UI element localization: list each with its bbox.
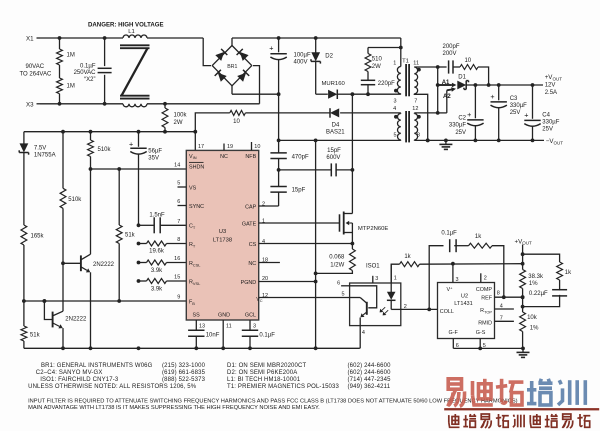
wire AC to bridge right: [253, 66, 260, 104]
svg-text:“X2”: “X2”: [84, 77, 95, 83]
svg-text:1/2W: 1/2W: [330, 262, 344, 268]
svg-text:SYNC: SYNC: [189, 204, 204, 210]
pin 13 SS number: [199, 323, 205, 329]
svg-text:1k: 1k: [404, 254, 411, 260]
capacitor 0.1uF comp: [441, 231, 468, 253]
svg-text:RT: RT: [189, 242, 196, 248]
wire X1 rail: [40, 37, 203, 39]
svg-text:T1: PREMIER MAGNETICS POL-1503: T1: PREMIER MAGNETICS POL-15033: [227, 384, 340, 390]
text BOM row 1: [41, 363, 391, 369]
capacitor C4 330uF 25V: [524, 85, 560, 140]
svg-text:10: 10: [254, 144, 260, 150]
pin 2 COMP stub: [481, 273, 487, 282]
svg-text:ISO1: ISO1: [366, 263, 380, 269]
wire PGND line: [259, 280, 318, 284]
svg-text:D2: D2: [325, 54, 333, 60]
resistor 10k 1%: [520, 312, 539, 332]
label +VOUT 12V 2.5A: [545, 74, 563, 96]
svg-text:PGND: PGND: [241, 280, 257, 286]
pin 1 ISO1 LED anode: [391, 264, 397, 292]
svg-text:0.1µF: 0.1µF: [441, 231, 457, 237]
resistor 3.9k RCSL: [137, 260, 187, 274]
svg-text:CT: CT: [189, 224, 196, 230]
svg-text:19.6k: 19.6k: [149, 249, 165, 255]
wire bridge + to DC rail: [232, 36, 401, 45]
resistor 510 2W snubber: [365, 46, 403, 72]
svg-text:0.22µF: 0.22µF: [529, 291, 548, 297]
pin 2 ISO1 cathode wire: [391, 304, 437, 311]
transformer T1 primary winding 1-3: [394, 38, 401, 94]
svg-text:(714) 447-2345: (714) 447-2345: [348, 377, 392, 383]
pin 6 ISO1 base stub: [337, 280, 377, 308]
capacitor 220pF snubber: [361, 72, 395, 95]
svg-text:BR1: BR1: [227, 64, 237, 70]
svg-text:15pF: 15pF: [292, 188, 306, 194]
text note line 1: [28, 399, 518, 405]
diode D4 BAS21: [326, 108, 345, 135]
wire bridge - output: [232, 86, 281, 96]
pin 2 CAP number: [262, 202, 265, 208]
svg-text:LT1431: LT1431: [454, 301, 473, 307]
svg-text:NFB: NFB: [245, 154, 256, 160]
svg-text:C2–C4: SANYO MV-GX: C2–C4: SANYO MV-GX: [36, 370, 103, 376]
pin 18 NC stub: [259, 258, 280, 264]
svg-text:BAS21: BAS21: [326, 130, 345, 136]
svg-text:165k: 165k: [31, 234, 45, 240]
pin 1 GATE number: [262, 219, 265, 225]
svg-text:U3: U3: [219, 229, 226, 235]
svg-text:NC: NC: [220, 154, 228, 160]
svg-text:MTP2N60E: MTP2N60E: [358, 226, 389, 232]
pin 20 PGND number: [262, 276, 268, 282]
text BOM row 2: [36, 370, 391, 376]
pin 3 GCL number: [253, 323, 256, 329]
capacitor C3 330uF 25V: [490, 85, 527, 140]
svg-text:2W: 2W: [372, 64, 381, 70]
inductor L1 common-mode choke: [120, 29, 150, 107]
label +VOUT feedback: [515, 238, 533, 245]
svg-text:FB: FB: [189, 299, 195, 305]
svg-text:0.1µF: 0.1µF: [259, 333, 275, 339]
svg-text:330µF: 330µF: [542, 120, 559, 126]
svg-text:D1: D1: [458, 75, 466, 81]
svg-text:SS: SS: [193, 313, 201, 319]
wire GATE line: [259, 222, 340, 224]
svg-text:(949) 362-4211: (949) 362-4211: [348, 384, 391, 390]
pin 14 SHDN number: [174, 162, 180, 168]
svg-text:13: 13: [199, 323, 205, 329]
svg-text:12V: 12V: [545, 83, 556, 89]
resistor 0.068 1/2W: [314, 249, 356, 275]
svg-text:2.5A: 2.5A: [545, 90, 557, 96]
svg-text:COMP: COMP: [476, 287, 493, 293]
resistor 510k left: [60, 132, 82, 264]
svg-text:+: +: [129, 139, 133, 148]
svg-text:7: 7: [500, 316, 503, 322]
wire startup rail: [24, 130, 195, 134]
wire output common rail: [414, 139, 544, 143]
svg-text:1: 1: [394, 276, 397, 282]
svg-text:8: 8: [177, 237, 180, 243]
svg-text:A2: A2: [443, 94, 451, 100]
resistor 165k: [21, 225, 45, 301]
wire CAP pin 2: [259, 205, 279, 207]
svg-text:400V: 400V: [294, 60, 308, 66]
wire X3 rail: [40, 103, 260, 105]
wire primary ground column: [315, 140, 317, 348]
svg-text:15pF: 15pF: [327, 148, 341, 154]
svg-text:1: 1: [393, 60, 396, 66]
node A pin11 junction: [436, 65, 440, 115]
resistor 10 output snubber: [460, 58, 489, 85]
transformer T1 secondary winding 12-8: [414, 113, 437, 140]
pin 3 V+ stub: [453, 264, 459, 283]
svg-text:200pF: 200pF: [442, 44, 459, 50]
svg-text:BR1: GENERAL INSTRUMENTS W06G: BR1: GENERAL INSTRUMENTS W06G: [41, 363, 153, 369]
svg-text:U2: U2: [461, 293, 468, 299]
svg-text:TO 264VAC: TO 264VAC: [20, 72, 52, 78]
svg-text:6: 6: [337, 280, 340, 286]
svg-text:25V: 25V: [510, 110, 521, 116]
svg-text:10: 10: [464, 58, 471, 64]
svg-text:GATE: GATE: [242, 221, 257, 227]
svg-text:600V: 600V: [326, 155, 340, 161]
svg-text:250VAC: 250VAC: [74, 70, 97, 76]
svg-text:18: 18: [262, 258, 268, 264]
svg-text:(602) 244-6600: (602) 244-6600: [348, 363, 392, 369]
pin 8 RT number: [177, 237, 180, 243]
svg-text:11: 11: [413, 60, 419, 66]
svg-text:CAP: CAP: [245, 204, 256, 210]
svg-text:D1: ON SEMI MBR20200CT: D1: ON SEMI MBR20200CT: [227, 363, 307, 369]
pin 10 NFB stub: [252, 142, 261, 150]
svg-text:330µF: 330µF: [449, 123, 466, 129]
text BOM row 4: [28, 384, 391, 390]
svg-text:25V: 25V: [455, 130, 466, 136]
svg-text:2N2222: 2N2222: [65, 317, 87, 323]
svg-text:CS: CS: [249, 242, 257, 248]
svg-text:10k: 10k: [527, 315, 538, 321]
transformer T1 core lower: [406, 111, 409, 142]
svg-text:RVSL: RVSL: [189, 279, 201, 285]
pin 7 RMID stub: [495, 316, 514, 322]
wire VC line: [259, 297, 350, 299]
svg-text:3: 3: [456, 277, 459, 283]
watermark underline: [444, 408, 599, 410]
capacitor C2 330uF 25V: [449, 85, 484, 140]
op-amp U3 LT1738 body: [186, 150, 263, 320]
svg-text:200V: 200V: [442, 51, 456, 57]
pin 17 VIN number: [198, 144, 204, 150]
svg-text:D4: D4: [332, 123, 340, 129]
svg-text:15: 15: [174, 275, 180, 281]
svg-text:100k: 100k: [174, 112, 188, 118]
pin 6 G-F stub: [453, 339, 459, 350]
svg-text:DANGER: HIGH VOLTAGE: DANGER: HIGH VOLTAGE: [88, 21, 164, 28]
svg-text:RTOP: RTOP: [480, 308, 492, 314]
resistor 38.3k 1%: [520, 270, 544, 289]
svg-text:3: 3: [375, 276, 378, 282]
op-amp U2 LT1431 body: [438, 283, 495, 339]
capacitor 200pF 200V: [438, 44, 460, 74]
svg-text:C4: C4: [542, 112, 550, 118]
resistor R 1M lower: [57, 65, 75, 106]
svg-text:7: 7: [414, 98, 417, 104]
svg-text:INPUT FILTER IS REQUIRED TO AT: INPUT FILTER IS REQUIRED TO ATTENUATE SW…: [28, 399, 518, 405]
diode MUR160: [322, 81, 353, 99]
svg-text:L1: L1: [128, 29, 135, 35]
arrow A2: [438, 87, 456, 113]
pin 6 SYNC stub: [177, 199, 186, 206]
svg-text:+: +: [524, 111, 528, 120]
svg-text:100µF: 100µF: [294, 53, 311, 59]
wire V+ line to +VOUT: [420, 262, 525, 266]
watermark logo yiditiuo peixun: [448, 379, 586, 407]
svg-text:51k: 51k: [30, 332, 41, 338]
pin 7 CT number: [177, 219, 180, 225]
svg-text:51k: 51k: [125, 233, 136, 239]
svg-text:3.9k: 3.9k: [151, 268, 163, 274]
svg-text:7: 7: [177, 219, 180, 225]
resistor 19.6k RT: [137, 241, 187, 255]
transformer T1 labels: [393, 58, 420, 138]
zener 7.5V 1N755A: [19, 132, 55, 225]
transistor Q MTP2N60E mosfet: [340, 212, 389, 235]
resistor 51k shdn-fb: [116, 169, 135, 301]
svg-text:COLL: COLL: [440, 309, 454, 315]
capacitor 1.5nF CT: [137, 213, 187, 234]
light arrows: [380, 307, 389, 315]
svg-text:3.9k: 3.9k: [151, 286, 163, 292]
resistor 10 VIN: [230, 110, 246, 125]
wire FB line: [24, 299, 186, 303]
diode D1 MBR20200CT: [457, 75, 468, 90]
svg-text:D2: ON SEMI P6KE200A: D2: ON SEMI P6KE200A: [227, 370, 297, 376]
text 90VAC TO 264VAC: [20, 64, 52, 77]
arrow A1: [438, 80, 457, 87]
svg-text:0.1µF: 0.1µF: [80, 63, 96, 69]
resistor R 1M upper: [57, 36, 75, 65]
svg-text:RMID: RMID: [478, 320, 492, 326]
resistor 1k LED feed: [391, 254, 419, 283]
pin 16 RCSL number: [174, 256, 180, 262]
svg-text:1%: 1%: [530, 325, 539, 331]
transistor Q1 2N2222: [63, 169, 115, 348]
capacitor 100uF 400V: [269, 38, 311, 94]
svg-text:220pF: 220pF: [378, 81, 395, 87]
wire clamp to T1 pin3: [351, 92, 401, 96]
wire SHDN line: [89, 167, 187, 171]
svg-text:1N755A: 1N755A: [34, 152, 56, 158]
resistor 1k output: [523, 254, 573, 280]
text note line 2: [28, 405, 320, 411]
svg-text:VIN: VIN: [189, 154, 197, 160]
diode D2 zener P6KE200A: [311, 38, 334, 94]
svg-text:7.5V: 7.5V: [34, 146, 46, 152]
capacitor 470pF: [270, 94, 309, 161]
svg-text:4: 4: [393, 106, 396, 112]
transistor Q2 2N2222: [43, 261, 87, 348]
svg-text:T1: T1: [402, 58, 409, 64]
svg-text:330µF: 330µF: [510, 103, 527, 109]
wire VIN line: [193, 113, 400, 150]
svg-text:UNLESS OTHERWISE NOTED: ALL RE: UNLESS OTHERWISE NOTED: ALL RESISTORS 12…: [28, 384, 197, 390]
svg-text:5: 5: [394, 132, 397, 138]
svg-text:1.5nF: 1.5nF: [149, 213, 165, 219]
ground output: [439, 140, 452, 149]
svg-text:510k: 510k: [98, 147, 112, 153]
svg-text:G-F: G-F: [449, 330, 459, 336]
svg-text:(619) 661-6835: (619) 661-6835: [162, 370, 206, 376]
terminal X3: [26, 101, 40, 108]
svg-text:4: 4: [362, 330, 365, 336]
wire LT1431 ground line: [453, 347, 525, 351]
capacitor 15pF: [270, 159, 305, 207]
svg-text:GND: GND: [218, 313, 230, 319]
pin 9 FB number: [177, 295, 180, 301]
wire +VOUT column: [521, 245, 525, 349]
wire REF line: [495, 290, 525, 299]
svg-text:0.068: 0.068: [329, 254, 345, 260]
wire ground rail: [24, 346, 360, 350]
svg-text:MAIN ADVANTAGE WITH LT1738 IS: MAIN ADVANTAGE WITH LT1738 IS IT MAKES S…: [28, 405, 320, 411]
svg-text:L1: BI TECH HM18-10001: L1: BI TECH HM18-10001: [227, 377, 301, 383]
svg-text:1k: 1k: [565, 270, 572, 276]
svg-text:5: 5: [177, 181, 180, 187]
resistor 3.9k RVSL: [137, 279, 187, 293]
wire CS line: [259, 243, 353, 245]
svg-text:11: 11: [226, 323, 232, 329]
pin 15 RVSL number: [174, 275, 180, 281]
transformer T1 primary winding 4-5: [394, 113, 401, 140]
svg-text:X1: X1: [26, 36, 34, 43]
bridge rectifier BR1: [212, 46, 252, 86]
wire AC to bridge left: [203, 38, 211, 66]
svg-text:19: 19: [227, 144, 233, 150]
svg-text:2W: 2W: [174, 120, 183, 126]
capacitor 10nF SS: [188, 320, 220, 348]
wire COLL riser: [429, 246, 443, 310]
ground LT1431: [517, 348, 530, 357]
svg-text:510k: 510k: [68, 197, 82, 203]
svg-text:470pF: 470pF: [292, 155, 309, 161]
svg-text:(215) 323-1000: (215) 323-1000: [162, 363, 206, 369]
svg-text:510: 510: [372, 57, 383, 63]
svg-text:NC: NC: [248, 261, 256, 267]
svg-text:GCL: GCL: [245, 313, 256, 319]
svg-text:1k: 1k: [475, 234, 482, 240]
svg-text:9: 9: [177, 295, 180, 301]
pin 19 NC stub: [224, 144, 233, 151]
svg-text:10nF: 10nF: [206, 333, 220, 339]
svg-text:56µF: 56µF: [148, 149, 162, 155]
svg-text:90VAC: 90VAC: [26, 64, 45, 70]
capacitor 15pF 600V: [279, 148, 355, 177]
svg-text:35V: 35V: [148, 156, 159, 162]
pin 11 GND number: [226, 323, 232, 329]
svg-text:5: 5: [342, 291, 345, 297]
pin 3 ISO1 stub: [373, 276, 379, 283]
optocoupler ISO1 body: [350, 263, 401, 325]
svg-text:+: +: [467, 110, 471, 119]
svg-text:3: 3: [253, 323, 256, 329]
pin 5 ISO1 phototransistor: [342, 291, 367, 325]
capacitor 0.1uF 250VAC X2: [74, 36, 112, 106]
svg-text:REF: REF: [481, 295, 492, 301]
capacitor 0.22uF: [523, 280, 568, 307]
svg-text:+: +: [269, 43, 273, 52]
svg-text:+: +: [490, 92, 494, 101]
LED inside ISO1: [387, 292, 396, 310]
pin 5 G-S stub: [478, 339, 486, 351]
svg-text:VS: VS: [189, 185, 197, 191]
svg-text:6: 6: [177, 199, 180, 205]
transformer T1 core upper: [406, 64, 409, 96]
svg-text:(602) 244-6600: (602) 244-6600: [348, 370, 392, 376]
resistor 100k 2W: [162, 102, 187, 132]
svg-text:(888) 522-5373: (888) 522-5373: [162, 377, 206, 383]
svg-text:16: 16: [174, 256, 180, 262]
svg-text:RCSL: RCSL: [189, 261, 201, 267]
svg-text:25V: 25V: [542, 127, 553, 133]
capacitor 0.1uF GCL: [242, 320, 275, 348]
transformer T1 secondary winding 11-7: [414, 67, 437, 142]
svg-text:4: 4: [500, 303, 503, 309]
pin 4 RTOP stub: [495, 303, 514, 309]
resistor 510k shdn: [88, 132, 112, 169]
svg-text:10: 10: [233, 119, 240, 125]
pin 4 ISO1 emitter: [360, 326, 365, 349]
text BOM row 3: [40, 377, 391, 383]
svg-text:C2: C2: [458, 115, 466, 121]
resistor 1k comp: [469, 234, 504, 297]
svg-text:3: 3: [393, 98, 396, 104]
pin 12 VC number: [262, 293, 268, 299]
svg-text:G-S: G-S: [476, 330, 486, 336]
pin 4 CS number: [262, 239, 265, 245]
resistor 51k lower left: [21, 299, 41, 348]
svg-text:38.3k: 38.3k: [528, 274, 544, 280]
wire drain: [351, 94, 353, 213]
svg-text:A1: A1: [442, 80, 450, 86]
wire +V output line: [466, 83, 543, 87]
svg-text:14: 14: [174, 162, 180, 168]
wire primary return: [277, 139, 401, 143]
svg-text:C3: C3: [510, 96, 518, 102]
svg-text:17: 17: [198, 144, 204, 150]
svg-text:2: 2: [484, 276, 487, 282]
svg-text:2N2222: 2N2222: [93, 262, 115, 268]
svg-text:LT1738: LT1738: [213, 238, 232, 244]
svg-text:1M: 1M: [67, 53, 75, 59]
capacitor 56uF 35V: [129, 132, 162, 226]
svg-text:1%: 1%: [529, 281, 538, 287]
terminal X1: [26, 36, 40, 43]
svg-text:MUR160: MUR160: [322, 81, 346, 87]
svg-text:12: 12: [412, 106, 418, 112]
label -VOUT: [546, 138, 564, 145]
svg-text:ISO1: FAIRCHILD CNY17-3: ISO1: FAIRCHILD CNY17-3: [40, 377, 119, 383]
wire source to CS: [351, 233, 355, 250]
svg-text:SHDN: SHDN: [189, 165, 204, 171]
text DANGER: HIGH VOLTAGE: [88, 21, 164, 28]
pin 5 VS stub: [177, 181, 186, 188]
svg-text:1M: 1M: [67, 83, 75, 89]
svg-text:8: 8: [497, 290, 500, 296]
watermark subtitle sheopin: [449, 414, 591, 428]
wire GND pin: [222, 320, 224, 348]
svg-text:X3: X3: [26, 101, 34, 108]
